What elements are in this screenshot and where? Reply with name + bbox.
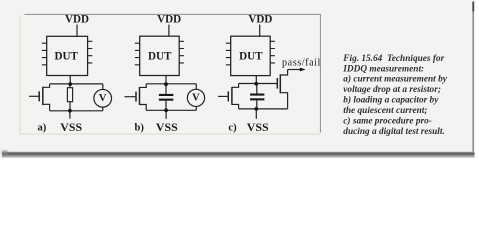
svg-text:pass/fail: pass/fail [282,57,321,68]
svg-text:V: V [99,92,107,104]
junction node (c) VSS [254,107,258,111]
wire node to capacitor (c) [256,84,258,94]
wire VDD supply to DUT (c) [259,25,261,37]
svg-text:VSS: VSS [156,120,178,134]
svg-text:c) same procedure pro-: c) same procedure pro- [343,115,432,126]
wire voltmeter to VSS rail (a) [102,107,104,111]
junction node (b) VSS [164,108,168,112]
wire VSS rail (b) [146,109,196,111]
wire voltmeter to VSS rail (b) [195,107,197,111]
wire capacitor to VSS rail (b) [165,101,167,111]
voltmeter V2 [187,89,204,106]
arrowhead pass/fail output (c) [300,68,306,72]
svg-text:DUT: DUT [239,50,263,62]
VSS ground stub (a) [69,111,71,119]
transistor Q1 [29,84,50,111]
DUT box (a) [47,36,88,75]
DUT pins left (a) [42,43,47,65]
transistor Q4 [277,70,287,109]
wire capacitor to VSS rail (c) [256,100,258,109]
svg-text:the quiescent current;: the quiescent current; [343,106,427,116]
capacitor C2 [250,94,264,101]
junction node (b) DUT-capacitor [164,82,168,86]
capacitor C1 [159,94,173,101]
transistor Q3 [218,84,239,109]
svg-text:DUT: DUT [54,50,78,62]
svg-text:IDDQ measurement:: IDDQ measurement: [342,64,424,74]
DUT pins right (c) [270,41,275,63]
svg-text:VDD: VDD [157,13,181,25]
junction node (a) VSS [68,109,72,113]
wire node to voltmeter (b) [195,84,197,90]
DUT box (c) [231,36,271,75]
resistor R1 [67,88,72,102]
svg-text:c): c) [228,123,237,134]
wire VSS rail (a) [50,110,103,112]
wire resistor to VSS rail (a) [69,102,71,111]
wire DUT bottom to node (a) [69,76,71,84]
svg-text:VDD: VDD [65,13,89,25]
svg-text:VSS: VSS [60,120,82,134]
wire node rail (a) [50,83,103,85]
DUT pins left (b) [135,43,140,65]
svg-text:a): a) [38,122,47,133]
VSS ground stub (c) [255,109,257,119]
svg-text:VSS: VSS [247,120,269,134]
DUT pins left (c) [226,43,231,65]
svg-text:b) loading a capacitor by: b) loading a capacitor by [343,95,439,106]
wire pass/fail output (c) [288,69,301,71]
svg-text:VDD: VDD [248,13,272,25]
svg-text:a) current measurement by: a) current measurement by [343,74,447,85]
svg-text:DUT: DUT [148,50,172,62]
transistor Q2 [124,84,146,111]
wire node to resistor (a) [69,84,71,88]
wire VDD supply to DUT (b) [168,25,170,37]
wire node rail to Q4 gate (c) [239,83,278,85]
wire DUT bottom to node (c) [255,76,257,84]
wire node to capacitor (b) [165,84,167,94]
wire node to voltmeter (a) [102,84,104,90]
DUT box (b) [140,36,180,75]
voltmeter V1 [94,89,112,107]
wire VSS rail (c) [239,108,288,110]
VSS ground stub (b) [165,110,167,119]
wire VDD supply to DUT (a) [76,25,78,37]
svg-text:voltage drop at a resistor;: voltage drop at a resistor; [343,85,441,95]
junction node (c) DUT-capacitor [254,82,258,86]
DUT pins right (a) [88,41,93,63]
svg-text:b): b) [135,122,145,133]
wire node rail (b) [146,83,196,85]
DUT pins right (b) [179,41,184,63]
wire DUT bottom to node (b) [165,76,167,84]
svg-text:V: V [192,92,200,104]
svg-text:Fig. 15.64 Techniques for: Fig. 15.64 Techniques for [342,54,444,64]
junction node (a) DUT-resistor [68,82,72,86]
svg-text:ducing a digital test result.: ducing a digital test result. [343,127,445,137]
